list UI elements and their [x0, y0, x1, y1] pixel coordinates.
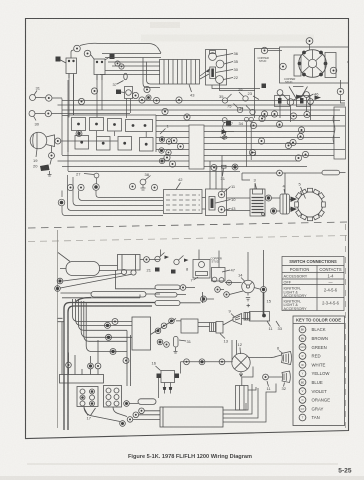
color code GREEN — [299, 344, 327, 351]
bullet chain 3 — [133, 412, 139, 418]
border frame — [26, 19, 349, 439]
wires capsule to coil — [60, 266, 118, 271]
connector h5 — [123, 358, 129, 364]
connector g2 — [201, 296, 207, 302]
wire stubs from above — [161, 250, 249, 281]
flasher box a — [275, 96, 290, 107]
connector r9 — [259, 115, 265, 121]
label 21 blob — [226, 121, 231, 126]
turn signal lamp 31 — [30, 95, 36, 101]
connector f1 dark — [57, 278, 63, 284]
contact blade right — [315, 96, 322, 101]
capsule ground — [174, 348, 178, 354]
kill switch b — [174, 259, 179, 264]
connector r14 — [295, 155, 301, 161]
right bracket plate — [325, 53, 336, 78]
connector c5 — [184, 114, 190, 120]
tail lamp feed wires — [232, 340, 237, 361]
harness lower line 13 — [62, 166, 307, 168]
ground under dimmer — [49, 171, 51, 175]
connector s2 dark — [232, 164, 238, 170]
starter motor — [250, 312, 270, 322]
key switch body — [189, 125, 204, 169]
rule under caption — [27, 463, 338, 465]
connector r2 — [271, 111, 277, 117]
harness lower line 12 — [58, 160, 301, 162]
plus mark — [247, 304, 251, 307]
connector r8 — [302, 151, 308, 157]
bullet pair 2 — [166, 139, 171, 144]
connector near coil — [144, 257, 150, 263]
main harness line 8 — [156, 137, 340, 139]
color code VIOLET — [299, 388, 327, 395]
bullet below ladder — [146, 95, 151, 100]
connector circle mid — [132, 92, 138, 98]
wire relay top bus — [80, 43, 161, 53]
elbow capsule wire — [138, 399, 156, 405]
dashed separator upper — [28, 222, 347, 228]
brush blade upper — [291, 197, 298, 203]
ignition circuit breaker disc — [299, 50, 327, 78]
connector d1 — [67, 184, 73, 190]
instrument panel switch box row1b — [90, 118, 104, 131]
handlebar switch 75 — [237, 107, 242, 112]
coil bottom feed wire — [116, 270, 156, 289]
panel connector ring — [76, 131, 82, 137]
generator 5 — [297, 192, 322, 217]
connector h3 — [106, 334, 112, 340]
connector r10 — [250, 122, 256, 128]
main harness line 6 — [156, 125, 345, 127]
wire under switch box — [212, 84, 260, 91]
connector r13 — [285, 142, 291, 148]
condenser box 13 — [216, 322, 223, 334]
wire breaker to right frame — [341, 62, 350, 103]
wires linking charge row — [202, 198, 250, 211]
connector i1 dark — [261, 287, 267, 293]
connector g3 — [215, 287, 221, 293]
main harness line 1 — [62, 100, 345, 102]
wire label40 to relay — [61, 60, 67, 63]
connector r12 — [298, 127, 304, 133]
switch connections table — [282, 257, 344, 311]
ground at button — [246, 296, 250, 301]
handlebar switch 35 — [222, 98, 227, 103]
wire drops from switch area — [280, 95, 311, 122]
ignition coil unit 16 — [161, 371, 175, 383]
instrument panel box row2c — [118, 137, 132, 151]
color code ORANGE — [299, 397, 330, 404]
rectifier block — [206, 189, 227, 216]
ignition-light switch detail box — [206, 50, 227, 86]
wire to starter button — [225, 282, 242, 284]
connector r5 — [304, 111, 310, 117]
color code BLACK — [299, 326, 326, 333]
battery 42 — [164, 190, 203, 214]
color code RED — [299, 353, 320, 360]
switch terminal 1 — [209, 53, 217, 61]
contact blade lower — [222, 130, 228, 135]
connector circle 26 — [91, 88, 97, 94]
main harness line 5 — [156, 120, 340, 122]
brush blade lower — [291, 207, 298, 213]
wire to socket 6 — [248, 355, 282, 358]
bleed-through smudge band — [141, 35, 314, 42]
wire diagonal through bullets — [151, 319, 177, 335]
color code WHITE — [299, 361, 325, 368]
dashed right edge of lower compartment — [345, 224, 347, 428]
ignition key lever — [222, 118, 227, 123]
nested elbow wires to battery — [62, 191, 163, 216]
terminal strip bar — [60, 375, 104, 384]
connector r15 — [258, 138, 264, 144]
wires chain to conduit — [129, 404, 160, 420]
connector r6 — [297, 133, 303, 139]
main harness line 4 — [62, 115, 345, 117]
handlebar switch 29 — [243, 96, 248, 101]
connector block 17b — [104, 386, 122, 408]
ignition timer box — [181, 319, 198, 333]
drop wires to charge row — [210, 156, 285, 195]
connector c4 — [176, 97, 182, 103]
breaker studs — [302, 51, 306, 55]
plug cable suppressor 1 — [155, 285, 180, 290]
color code BLUE — [299, 379, 323, 386]
color code TAN — [299, 414, 320, 421]
arrows into switch — [200, 69, 210, 80]
switch terminal 3 — [216, 76, 224, 84]
label 41 — [110, 54, 115, 59]
bullet b1 — [155, 328, 161, 334]
lower headlamp connector — [49, 153, 55, 159]
switch arrow a — [165, 256, 170, 260]
harness lower line 11 — [62, 155, 334, 157]
ignition switch lever contacts below breaker — [277, 90, 283, 96]
plug cable suppressor 2 — [155, 293, 177, 298]
bullet pair 4 — [166, 150, 171, 155]
connector d2 — [78, 184, 84, 190]
plug cable suppressor 3 — [155, 301, 180, 306]
wire to tail lamp — [181, 361, 233, 363]
switch arrow b — [184, 259, 189, 263]
wire to lower socket — [268, 376, 282, 378]
terminal circle 2 — [84, 50, 91, 57]
instrument panel switch box row1c — [108, 119, 122, 132]
wires below blocks to conduit — [84, 407, 127, 422]
condenser 4 — [280, 194, 290, 214]
connector under 38 — [151, 184, 157, 190]
instrument panel box row2a — [75, 136, 89, 150]
bullet chain 1 — [124, 401, 130, 407]
connector c1 — [139, 97, 145, 103]
starter relay box 8 — [193, 260, 210, 279]
wire over generator — [242, 172, 322, 174]
vertical wires left of panel — [62, 78, 74, 171]
wire relay R1 top — [71, 50, 74, 58]
flasher box b — [297, 96, 311, 107]
terminal circle above R1 — [74, 45, 81, 52]
bullet b2 — [161, 323, 167, 329]
color code BROWN — [299, 335, 328, 342]
connector c7 — [177, 143, 183, 149]
contact blade left — [296, 95, 302, 100]
spark coil housing capsule — [66, 262, 100, 276]
connector pair lower — [157, 339, 163, 345]
connector c9 — [169, 161, 175, 167]
instrument panel lamp box wide — [126, 120, 153, 132]
turn signal lamp 30 — [29, 111, 35, 117]
headlamp — [30, 132, 47, 149]
bullet chain 4 — [127, 417, 133, 423]
color code YELLOW — [299, 370, 330, 377]
dashed separator lower — [28, 236, 347, 242]
headlamp connector — [55, 138, 61, 144]
label 28 — [116, 90, 121, 95]
ignition coil box — [118, 255, 141, 271]
switch inner contact rect — [210, 67, 216, 79]
switch connections table text — [284, 259, 342, 311]
instrument panel box row2d — [140, 138, 154, 152]
thick frame wire outer — [64, 303, 155, 431]
connector s1 — [211, 165, 217, 171]
instrument panel switch box row1a — [72, 118, 86, 131]
thick frame wire inner — [68, 306, 152, 430]
horn 9 cone — [233, 314, 242, 325]
connector c3 — [162, 108, 168, 114]
key circles — [244, 117, 248, 121]
solenoid box 47 — [212, 268, 226, 282]
relay R1 (horn relay) — [66, 58, 77, 74]
thick stub curve — [76, 298, 91, 302]
socket 6 — [282, 352, 292, 365]
coil leads to connectors — [58, 253, 131, 289]
connector g4 — [224, 292, 230, 298]
fuse 37 oval — [124, 73, 128, 79]
connector d4 dark — [58, 199, 65, 206]
relay drop wires — [69, 74, 131, 119]
connector r1 — [261, 111, 267, 117]
circuit breaker 28 box — [125, 87, 133, 99]
copper stud terminal circle — [261, 47, 267, 53]
instrument panel box row2b — [97, 137, 111, 151]
connector c2 — [153, 97, 159, 103]
connector h1 — [105, 322, 111, 328]
connector circle left — [78, 98, 84, 104]
conduit housing — [160, 407, 223, 427]
main harness line 10 — [156, 149, 345, 151]
connector mid — [129, 183, 135, 189]
spark plug legs — [165, 383, 171, 388]
long cable capsule — [91, 292, 146, 298]
spark plug boot — [210, 323, 216, 332]
bullet pair 1 — [159, 137, 164, 142]
resistor capsule top right — [322, 170, 340, 175]
ladder block (terminal strip) — [160, 60, 200, 85]
connector h2 — [112, 319, 118, 325]
connector c6 — [171, 137, 177, 143]
bullet pair 3 — [159, 148, 164, 153]
wire left stud down — [158, 378, 160, 398]
bullet connector 15b — [119, 64, 124, 69]
wire terminal to relay R2 — [91, 55, 95, 60]
connector h4 — [110, 349, 116, 355]
connector e2 dark — [271, 208, 277, 214]
switch terminal 2 — [216, 60, 224, 68]
vertical pair to blocks — [127, 331, 131, 387]
oil signal rect — [132, 317, 151, 350]
wire to horn — [223, 320, 233, 326]
wires wrapping ladder left — [143, 58, 160, 88]
connector e1 dark — [266, 195, 272, 201]
rear strip rect — [236, 386, 249, 411]
bullet pair 5 — [159, 158, 164, 163]
starter button — [242, 280, 255, 293]
bullet connector 15a — [115, 61, 120, 66]
harness lower line 14 — [68, 171, 240, 173]
harness fan bundle — [73, 299, 133, 322]
socket lower — [282, 371, 290, 383]
coil plug terminals — [121, 269, 126, 274]
color code GRAY — [299, 405, 323, 412]
voltage regulator 3 — [250, 189, 265, 216]
connector g1 — [180, 285, 186, 291]
connectors above blocks — [66, 362, 72, 368]
connector circle far right — [337, 88, 344, 95]
main harness line 9 — [156, 143, 334, 145]
heavy starter cable — [263, 293, 265, 315]
dimmer switch blob — [40, 165, 50, 172]
main harness line 7 — [156, 131, 334, 133]
handlebar switch 34 — [250, 109, 255, 114]
bullet b3 — [169, 318, 175, 324]
left edge wire of lower compartment — [57, 230, 59, 428]
left bracket plate — [294, 55, 301, 76]
terminal circle right of disc — [330, 67, 337, 74]
connector r4 — [290, 113, 296, 119]
small capsule vertical — [174, 337, 179, 348]
socket lower pair connector — [263, 374, 269, 380]
inline capsule — [251, 152, 256, 155]
main harness line 2 — [58, 104, 346, 106]
right tall harness block — [334, 107, 346, 159]
connector f2 dark — [55, 286, 61, 292]
connector d3 dark — [93, 184, 100, 191]
wires conduit to sockets — [223, 384, 276, 423]
connector r7 — [290, 139, 296, 145]
relay R2 (starter relay) — [94, 59, 105, 75]
bullet chain 5 — [120, 421, 126, 427]
vertical drops from panel — [79, 131, 147, 137]
connector on signal 30 wire — [45, 110, 51, 116]
V wires into contacts — [289, 87, 308, 100]
terminal circle left of disc — [280, 63, 287, 70]
connector r3 — [276, 121, 282, 127]
bullet chain 2 — [139, 408, 145, 414]
connector r11 — [249, 149, 255, 155]
tail lamp — [232, 353, 250, 371]
main circuit breaker housing box — [280, 47, 349, 83]
fuse 27 circle — [94, 173, 99, 178]
wire bundle relays to ladder — [100, 54, 161, 75]
main harness line 3 — [62, 109, 340, 111]
connector circle right — [144, 86, 150, 92]
kill switch a — [155, 256, 160, 261]
connector on signal 31 wire — [36, 97, 46, 99]
connector above gen — [277, 170, 283, 176]
connector c8 — [164, 154, 170, 160]
label 40 — [56, 57, 61, 62]
terminal circle above breaker — [306, 38, 313, 45]
key to color code table — [293, 316, 345, 426]
flag 31 — [222, 165, 227, 168]
connector block 17a — [77, 387, 98, 407]
wire right stud to lamp feed — [180, 362, 182, 374]
panel outline wire — [68, 115, 156, 152]
